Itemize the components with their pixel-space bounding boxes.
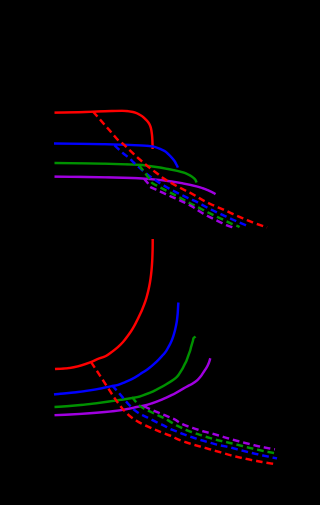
top purple solid curve: [55, 177, 216, 195]
top red solid curve: [55, 111, 153, 149]
bottom red dashed curve: [91, 362, 274, 464]
bottom purple dashed curve: [144, 406, 275, 449]
bottom green solid curve: [55, 337, 196, 408]
bottom blue solid curve: [54, 303, 178, 395]
bottom green dashed curve: [132, 397, 277, 454]
top blue solid curve: [54, 144, 178, 168]
top purple dashed curve: [144, 179, 235, 229]
bottom purple solid curve: [55, 358, 211, 415]
top green dashed curve: [139, 165, 240, 227]
bottom blue dashed curve: [112, 386, 277, 459]
top green solid curve: [55, 163, 197, 183]
top blue dashed curve: [115, 145, 250, 227]
top red dashed curve: [93, 112, 267, 228]
bottom red solid curve: [55, 239, 153, 369]
